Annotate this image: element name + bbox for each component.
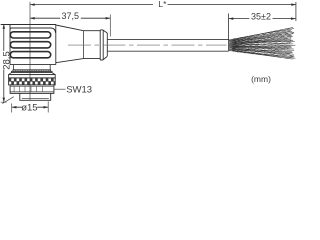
dimension 28,5 bottom arrow <box>3 98 6 103</box>
svg-text:SW13: SW13 <box>66 85 92 96</box>
grip slot 2 <box>10 42 50 48</box>
extension line ø15 left <box>11 103 13 112</box>
dimension ø15 line <box>12 106 49 108</box>
nose taper top edge <box>56 25 100 31</box>
extension line right end of cable <box>295 2 297 21</box>
cable jacket end / 35±2 extension <box>228 14 230 51</box>
dimension 28,5 top arrow <box>3 24 6 29</box>
hex nut outline <box>10 85 54 94</box>
svg-text:37,5: 37,5 <box>62 11 80 21</box>
boot end face <box>106 33 108 56</box>
cable top edge <box>107 38 228 40</box>
svg-text:35±2: 35±2 <box>251 11 271 21</box>
hex flat highlight left <box>14 86 25 92</box>
dimension L* left arrow <box>30 3 35 6</box>
stripped wire fan <box>229 27 296 59</box>
lower cylinder chamfer line <box>22 97 49 99</box>
grip slot 1 <box>10 32 50 38</box>
boot cone bottom edge <box>103 56 107 59</box>
boot cone top edge <box>103 30 107 33</box>
SW13 leader <box>54 88 65 90</box>
extension line ø15 right <box>47 101 49 112</box>
grip inset outline <box>10 28 55 33</box>
extension+centerline at connector axis <box>29 2 31 101</box>
cable centerline <box>68 44 227 46</box>
dimension L* line <box>30 4 296 6</box>
extension line right of 37,5 <box>109 15 111 37</box>
washer ticks <box>13 70 48 71</box>
dimension ø15 right arrow <box>44 106 49 109</box>
hex nut upper line <box>10 85 54 87</box>
connector housing bottom edge <box>10 64 56 66</box>
connector housing left edge <box>9 25 11 65</box>
boot lip ring <box>100 30 103 60</box>
dimension 37,5 line <box>30 17 110 19</box>
svg-text:L*: L* <box>158 0 167 9</box>
cable bottom edge <box>107 50 228 52</box>
chamfer band <box>9 73 56 75</box>
knurl upper plain ring <box>9 75 56 78</box>
knurled ring outline <box>9 78 56 85</box>
hex nut flat line <box>10 91 54 93</box>
grip/nose boundary edge <box>55 25 57 65</box>
dimension 35±2 left arrow <box>229 17 234 20</box>
grip slot 3 <box>10 52 50 58</box>
dimension ø15 left arrow <box>12 106 17 109</box>
dimension 37,5 right arrow <box>106 17 111 20</box>
dimension L* right arrow <box>291 3 296 6</box>
dimension 37,5 left arrow <box>30 17 35 20</box>
svg-text:(mm): (mm) <box>251 74 271 84</box>
connector housing top edge (with 28,5 extension overlap) <box>1 24 56 26</box>
dimension 35±2 line <box>229 18 296 20</box>
nose taper bottom edge <box>56 59 100 63</box>
washer band 2 <box>12 71 53 72</box>
dimension 35±2 right arrow <box>291 17 296 20</box>
neck side edges <box>14 65 51 70</box>
hex flat highlight right <box>31 86 42 92</box>
knurled ring texture <box>9 78 56 85</box>
extension line bottom of 28,5 <box>1 97 14 104</box>
lower cylinder <box>20 93 51 100</box>
dimension 28,5 line <box>3 24 5 102</box>
nose seam line <box>82 31 84 59</box>
washer tick band <box>13 70 51 72</box>
svg-text:ø15: ø15 <box>21 102 37 113</box>
